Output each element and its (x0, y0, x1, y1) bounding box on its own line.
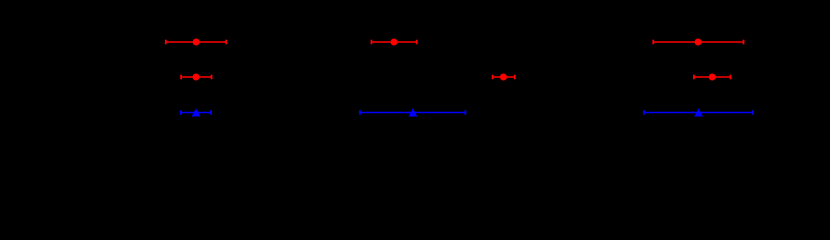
panel 2, row 3: blue errorbar with triangle marker (360, 108, 466, 116)
panel 2, row 1: red errorbar with circle marker (372, 39, 417, 46)
panel 1, row 3: blue errorbar with triangle marker (181, 108, 211, 116)
panel 3, row 3: blue errorbar with triangle marker (644, 108, 753, 116)
panel 3, row 2: red errorbar with circle marker (694, 74, 731, 81)
panel 3, row 1: red errorbar with circle marker (653, 39, 743, 46)
panel 1, row 2: red errorbar with circle marker (181, 74, 211, 81)
panel 2, row 2: red errorbar with circle marker (493, 74, 515, 81)
panel 1, row 1: red errorbar with circle marker (166, 39, 226, 46)
